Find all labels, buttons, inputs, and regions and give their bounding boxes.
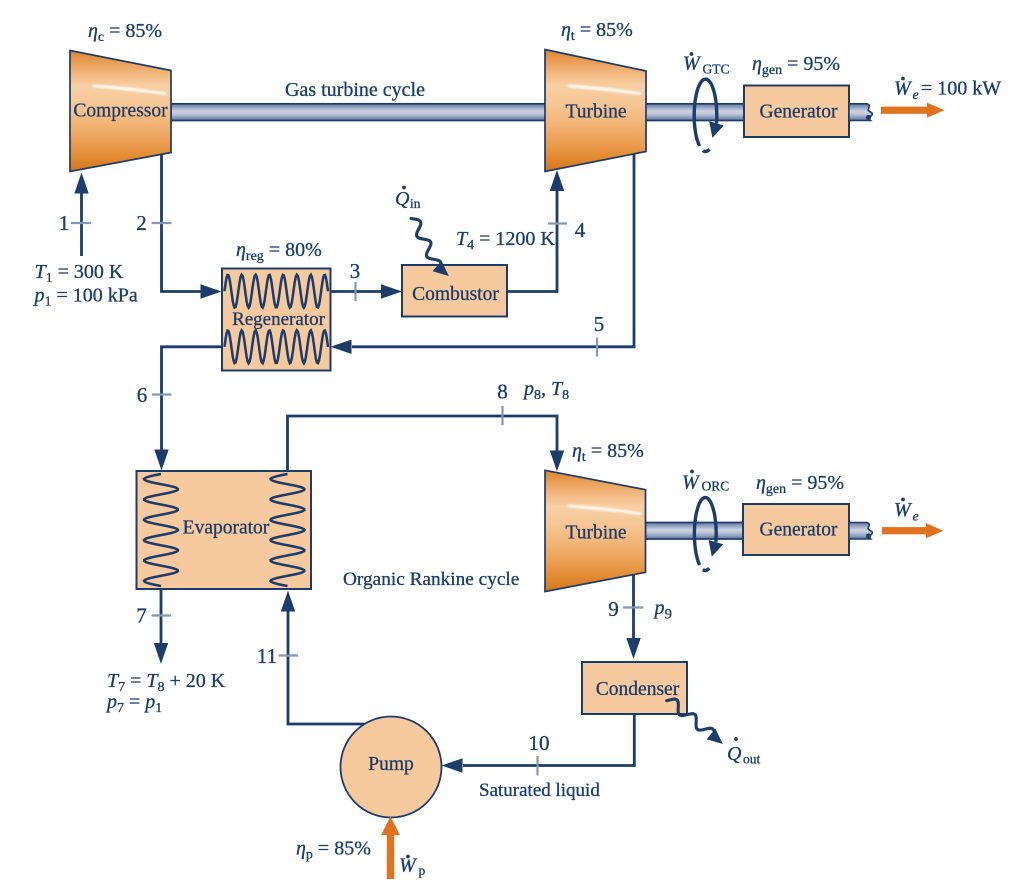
svg-text:1: 1 [59, 211, 70, 235]
node 11 tick [279, 654, 299, 656]
svg-text:Gas turbine cycle: Gas turbine cycle [285, 79, 425, 101]
wire 7: evaporator gas outlet [154, 589, 168, 664]
svg-text:out: out [743, 752, 761, 767]
svg-text:7: 7 [136, 604, 147, 628]
node 4 tick [548, 222, 567, 224]
pump [341, 717, 442, 818]
generator (GTC) [744, 86, 849, 138]
electrical output arrow W_e (ORC) [882, 523, 944, 538]
svg-text:p1 = 100 kPa: p1 = 100 kPa [33, 285, 138, 310]
node 3 tick [354, 282, 356, 301]
label Q_in [395, 186, 421, 211]
svg-text:8: 8 [497, 380, 508, 404]
shaft (ORC) [646, 523, 744, 540]
shaft work W_ORC rotation arrow [694, 498, 723, 571]
label W_p [399, 855, 426, 879]
svg-text:ηt = 85%: ηt = 85% [572, 440, 644, 465]
svg-text:10: 10 [529, 731, 550, 755]
wire 9: ORC turbine to condenser [626, 575, 640, 660]
regenerator [222, 269, 331, 371]
node 6 tick [152, 393, 172, 395]
node 9 tick [623, 606, 644, 608]
svg-text:Organic Rankine cycle: Organic Rankine cycle [343, 569, 519, 590]
node 5 tick [596, 338, 598, 357]
svg-text:ηp = 85%: ηp = 85% [296, 838, 371, 863]
combustor [402, 265, 507, 317]
svg-text:W: W [894, 499, 913, 521]
shaft stub with break (GTC) [849, 104, 872, 121]
shaft stub with break (ORC) [849, 523, 872, 540]
evaporator [137, 471, 312, 589]
node 1 tick [71, 222, 91, 224]
svg-text:Turbine: Turbine [565, 523, 626, 544]
svg-text:Combustor: Combustor [412, 284, 499, 305]
svg-text:9: 9 [608, 597, 619, 621]
svg-text:GTC: GTC [703, 62, 730, 77]
svg-text:ηgen = 95%: ηgen = 95% [752, 53, 840, 78]
label W_ORC [682, 470, 729, 494]
svg-text:p: p [419, 863, 426, 878]
wire 6: regenerator to evaporator [154, 347, 222, 471]
heat rejection Q_out squiggle arrow [667, 699, 723, 744]
svg-text:W: W [894, 78, 913, 100]
svg-text:Regenerator: Regenerator [232, 309, 326, 330]
svg-text:Q: Q [395, 188, 410, 210]
svg-text:Condenser: Condenser [596, 679, 680, 700]
turbine (ORC) [545, 470, 646, 591]
svg-text:3: 3 [350, 259, 361, 283]
svg-text:T1 = 300 K: T1 = 300 K [35, 261, 124, 286]
svg-text:11: 11 [257, 644, 277, 668]
condenser [582, 662, 687, 714]
turbine (gas turbine cycle) [545, 50, 646, 172]
node 7 tick [152, 614, 172, 616]
wire 1: air inlet into compressor [74, 173, 88, 257]
svg-text:in: in [410, 196, 421, 211]
svg-text:Q: Q [727, 743, 742, 765]
svg-text:Generator: Generator [760, 520, 838, 541]
svg-text:ηt = 85%: ηt = 85% [561, 19, 633, 44]
svg-text:e: e [913, 510, 919, 525]
electrical output arrow W_e (GTC) [881, 103, 945, 118]
svg-text:p9: p9 [653, 597, 673, 623]
svg-text:= 100 kW: = 100 kW [921, 78, 1001, 100]
wire 8: evaporator to ORC turbine [288, 416, 565, 472]
shaft work W_GTC rotation arrow [694, 79, 724, 151]
wire 10: condenser to pump [442, 714, 635, 773]
svg-text:Pump: Pump [368, 754, 414, 775]
svg-text:Compressor: Compressor [73, 101, 168, 122]
label Q_out [727, 737, 761, 766]
svg-text:p7 = p1: p7 = p1 [105, 691, 162, 716]
compressor [70, 51, 171, 172]
svg-text:ηreg = 80%: ηreg = 80% [236, 239, 322, 264]
node 8 tick [501, 406, 503, 425]
svg-text:ηgen = 95%: ηgen = 95% [756, 472, 844, 497]
node 10 tick [536, 756, 538, 776]
svg-text:ORC: ORC [702, 479, 730, 494]
svg-text:ηc = 85%: ηc = 85% [88, 20, 162, 45]
label W_e = 100 kW [894, 77, 1001, 103]
generator (ORC) [743, 504, 849, 555]
heat input Q_in squiggle arrow [411, 218, 449, 276]
node 2 tick [152, 222, 172, 224]
wire 11: pump to evaporator [281, 591, 364, 725]
svg-text:W: W [682, 472, 701, 494]
label W_GTC [683, 52, 730, 76]
wire 3: regenerator to combustor [331, 284, 403, 298]
svg-text:2: 2 [136, 211, 147, 235]
svg-text:Generator: Generator [760, 102, 838, 123]
wire 5: turbine exhaust to regenerator [331, 154, 635, 354]
svg-text:5: 5 [594, 312, 605, 336]
pump work arrow W_p [381, 817, 400, 880]
svg-text:6: 6 [137, 383, 148, 407]
svg-text:4: 4 [575, 218, 586, 242]
svg-text:p8, T8: p8, T8 [522, 378, 569, 403]
shaft (gas turbine cycle) [171, 104, 744, 121]
svg-text:Evaporator: Evaporator [183, 518, 270, 539]
svg-text:e: e [913, 88, 919, 103]
wire 2: compressor to regenerator [162, 154, 222, 299]
svg-text:W: W [683, 53, 702, 75]
wire 4: combustor to turbine [507, 170, 564, 292]
label W_e (ORC) [894, 498, 919, 525]
svg-text:Saturated liquid: Saturated liquid [479, 780, 600, 801]
svg-text:Turbine: Turbine [565, 102, 626, 123]
svg-text:T4 = 1200 K: T4 = 1200 K [456, 228, 555, 253]
